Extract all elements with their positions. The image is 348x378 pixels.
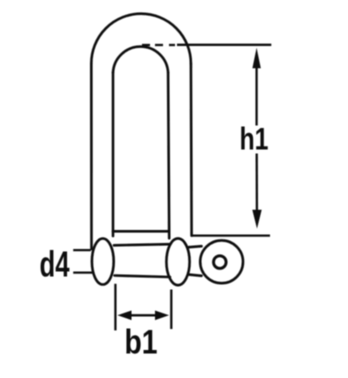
svg-text:d4: d4 xyxy=(40,244,70,285)
b1 left extension line xyxy=(114,284,116,331)
svg-text:h1: h1 xyxy=(240,121,269,157)
h1 top extension line xyxy=(177,44,271,46)
b1 dimension line shaft xyxy=(129,314,158,316)
pin shaft top line xyxy=(114,244,170,245)
shackle bow inner left leg line xyxy=(112,73,115,237)
pin collar bottom line xyxy=(189,275,202,276)
svg-text:b1: b1 xyxy=(125,324,158,362)
pin head circle xyxy=(200,240,243,283)
centerline dash segments at inner arc apex xyxy=(142,44,175,46)
h1 dimension line upper shaft xyxy=(255,66,257,126)
pin collar top line xyxy=(189,246,202,247)
right eye ellipse xyxy=(166,238,189,285)
d4 upper leader line xyxy=(73,249,91,251)
shackle bow outer arc xyxy=(91,14,191,64)
pin head hole xyxy=(214,256,227,269)
shackle bow inner right leg line xyxy=(168,73,169,239)
left eye ellipse xyxy=(92,239,114,285)
crossbar line at eye shoulder xyxy=(113,230,169,233)
h1 bottom extension line xyxy=(192,234,270,236)
h1 dimension line lower shaft xyxy=(256,154,258,211)
d4 lower leader line xyxy=(73,271,93,273)
shackle bow inner arc xyxy=(113,47,168,73)
pin shaft bottom line xyxy=(115,276,171,278)
h1 arrowhead up xyxy=(252,48,260,69)
b1 arrowhead left xyxy=(118,311,132,321)
b1 arrowhead right xyxy=(155,311,169,321)
b1 right extension line xyxy=(170,290,172,330)
shackle bow outer right leg line xyxy=(190,64,193,236)
shackle bow outer left leg line xyxy=(90,64,93,250)
h1 arrowhead down xyxy=(252,210,261,229)
